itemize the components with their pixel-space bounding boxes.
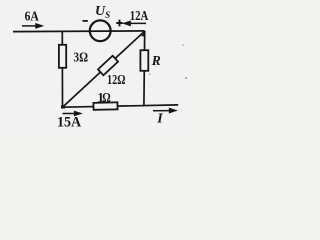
svg-text:15A: 15A <box>57 115 81 131</box>
svg-text:12Ω: 12Ω <box>107 73 126 88</box>
svg-text:6A: 6A <box>25 10 40 25</box>
svg-text:Ω: Ω <box>102 90 111 106</box>
svg-text:3Ω: 3Ω <box>74 51 89 66</box>
svg-text:R: R <box>151 53 161 68</box>
svg-text:12A: 12A <box>130 9 149 24</box>
svg-text:I: I <box>156 112 163 127</box>
